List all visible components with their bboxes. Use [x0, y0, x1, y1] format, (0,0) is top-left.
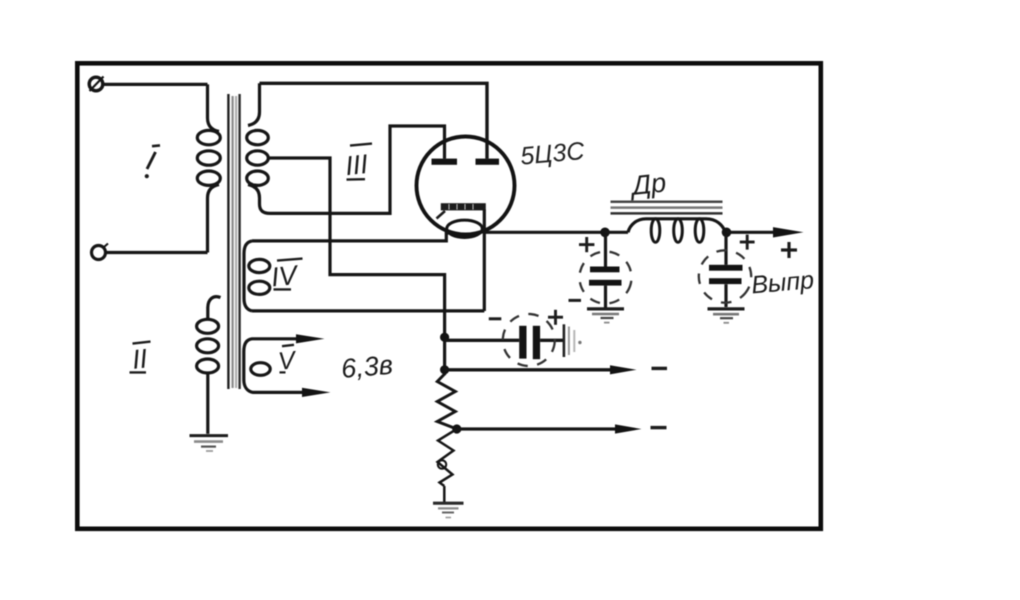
- label 6,3v: [340, 350, 394, 384]
- minus label at bias output 1: [652, 367, 668, 370]
- minus sign at C3: [489, 317, 502, 320]
- B+ wire from tube to filter: [484, 231, 606, 234]
- plus sign at C3: [548, 310, 563, 325]
- wire winding III center tap to bias network: [268, 158, 444, 375]
- label Vypr (rectified output): [750, 266, 815, 299]
- transformer core: [228, 94, 239, 389]
- winding V top arrow: [296, 334, 325, 343]
- minus label at bias output 2: [651, 426, 667, 429]
- plus sign at second capacitor: [740, 235, 755, 250]
- resistor R1 upper section: [437, 374, 457, 429]
- output wire with arrow: [727, 227, 804, 237]
- tube 5Ts3S envelope U1: [417, 137, 515, 235]
- label I: [145, 145, 160, 178]
- left anode plate: [432, 159, 458, 165]
- wire top terminal to winding I: [103, 83, 208, 86]
- choke Dr winding: [605, 219, 726, 243]
- ground under winding II: [190, 436, 229, 451]
- svg-text:6,3в: 6,3в: [340, 350, 394, 384]
- svg-text:Выпр: Выпр: [750, 266, 815, 299]
- ground under C1: [587, 309, 624, 323]
- battery stack marks at C3: [564, 324, 582, 357]
- dashed circle around C3: [501, 312, 557, 368]
- node junction bias cap tap: [440, 333, 449, 342]
- wire winding III top to right anode: [260, 83, 488, 158]
- tube base ellipse: [447, 220, 483, 237]
- label Dr: [628, 167, 668, 201]
- label IV: [270, 259, 303, 293]
- input terminal bottom: [92, 244, 109, 260]
- winding V (6.3V filament winding): [244, 339, 302, 393]
- plus sign at output: [781, 242, 797, 258]
- ground under resistor: [433, 503, 464, 517]
- wire winding III bottom to left anode: [270, 126, 445, 213]
- input terminal top: [89, 77, 103, 92]
- wire to bias capacitor C3: [445, 339, 520, 342]
- label III: [344, 144, 372, 182]
- winding IV (rectifier filament winding): [244, 233, 484, 311]
- wire bottom terminal to winding I: [106, 251, 208, 254]
- svg-text:5Ц3С: 5Ц3С: [519, 137, 586, 171]
- node junction bias output 1: [440, 365, 449, 374]
- winding V bottom arrow: [302, 388, 331, 397]
- label V: [277, 345, 299, 376]
- plus sign at first capacitor: [579, 237, 594, 252]
- capacitor C3 (bias cap) plates: [519, 326, 564, 359]
- resistor R1 lower section: [438, 429, 457, 502]
- svg-text:III: III: [344, 149, 370, 181]
- bias output wire 2 with arrow: [457, 424, 642, 433]
- node junction at choke output: [722, 228, 732, 238]
- svg-text:Др: Др: [628, 167, 668, 201]
- right anode plate: [476, 159, 500, 165]
- node junction bias output 2 (resistor tap): [452, 424, 461, 433]
- capacitor C1 (first filter cap): [589, 235, 622, 308]
- filament lead down: [483, 210, 486, 312]
- bias output wire 1 with arrow: [445, 365, 637, 374]
- dashed circle around C2: [689, 240, 761, 312]
- winding I (primary): [197, 84, 220, 252]
- border frame: [77, 63, 821, 529]
- filament / cathode: [437, 203, 486, 218]
- ground under C2: [708, 309, 745, 323]
- label 5Ts3S tube type: [519, 137, 586, 171]
- minus sign at C1: [569, 299, 582, 302]
- dashed circle around C1: [574, 246, 637, 309]
- choke Dr core: [611, 202, 723, 214]
- winding II (grounded winding): [197, 297, 221, 434]
- capacitor C2 (second filter cap): [709, 235, 743, 307]
- winding III (HV secondary): [247, 83, 270, 213]
- label II: [130, 342, 151, 375]
- node junction at choke input: [600, 228, 610, 238]
